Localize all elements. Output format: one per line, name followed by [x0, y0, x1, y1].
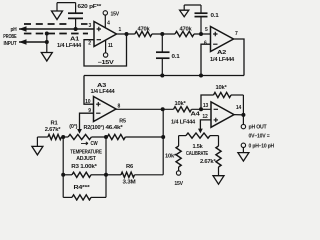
power +15V pin 4	[103, 11, 119, 28]
wire guard shield upper dashes	[24, 23, 88, 25]
svg-text:10k*: 10k*	[216, 85, 228, 91]
svg-text:11: 11	[108, 43, 113, 49]
wire junction up to A3 out	[162, 109, 164, 137]
svg-text:1.5k: 1.5k	[193, 144, 203, 150]
svg-text:3: 3	[89, 23, 92, 29]
wire A4 output	[234, 113, 245, 117]
label R2	[69, 118, 126, 130]
label A1	[57, 37, 81, 49]
wire pot left	[179, 136, 186, 146]
svg-text:470k: 470k	[180, 26, 192, 32]
svg-text:2: 2	[88, 41, 91, 47]
label R3	[71, 164, 98, 170]
svg-text:0.1: 0.1	[172, 54, 180, 60]
svg-text:14: 14	[236, 105, 242, 111]
wire bus A2 out to A3 in	[84, 74, 244, 78]
wire A2 output loop	[234, 39, 245, 76]
svg-text:6: 6	[204, 41, 207, 47]
ground calibrate	[213, 167, 224, 184]
label A4	[171, 111, 200, 125]
resistor 2.67k to gnd	[200, 146, 221, 167]
svg-text:4: 4	[107, 21, 110, 27]
wire R5 to junction	[125, 135, 165, 139]
svg-text:8: 8	[118, 103, 121, 109]
wire ground to cap	[57, 3, 76, 13]
ground output	[238, 148, 249, 162]
svg-text:A3: A3	[97, 83, 106, 89]
label pin5	[205, 27, 208, 33]
label pin10	[85, 99, 91, 105]
svg-text:15V: 15V	[174, 181, 183, 187]
svg-text:(0°): (0°)	[69, 124, 77, 130]
label R4	[74, 185, 92, 191]
svg-text:pH OUT: pH OUT	[249, 125, 268, 131]
svg-text:10k*: 10k*	[175, 101, 187, 107]
wire guard shield lower dashes	[23, 33, 88, 35]
wire right rail	[104, 137, 108, 197]
potentiometer 1.5k calibrate	[186, 133, 210, 157]
svg-text:R1: R1	[51, 120, 58, 126]
label pin13	[203, 103, 209, 109]
wire A4 feedback	[201, 95, 243, 115]
svg-text:R2(100°): R2(100°)	[84, 125, 105, 131]
resistor R5 46.4k	[107, 134, 125, 139]
resistor 10k A3 to A4	[174, 101, 192, 112]
svg-text:R6: R6	[126, 164, 133, 170]
svg-text:0.1: 0.1	[211, 13, 219, 19]
wire probe return with arrow	[19, 39, 47, 44]
wire ground to cap2	[184, 5, 201, 13]
label pin12	[202, 114, 208, 120]
svg-text:0 pH–10 pH: 0 pH–10 pH	[249, 144, 275, 150]
svg-text:A1: A1	[70, 37, 79, 43]
wire A3 pin9 to pot wiper	[77, 113, 93, 134]
svg-text:ADJUST: ADJUST	[76, 156, 97, 162]
svg-text:46.4k*: 46.4k*	[106, 125, 124, 131]
ground R1	[32, 137, 43, 155]
svg-text:PROBE: PROBE	[3, 34, 17, 40]
svg-text:7: 7	[235, 31, 238, 37]
ground guard cap	[52, 3, 63, 20]
svg-text:0V–10V =: 0V–10V =	[249, 133, 270, 139]
label A2	[210, 50, 234, 63]
wire A1 feedback loop	[84, 34, 127, 66]
svg-text:CW: CW	[91, 141, 98, 147]
svg-text:1/4 LF444: 1/4 LF444	[91, 89, 115, 95]
capacitor 0.1 mid	[156, 34, 180, 76]
ground input return	[41, 42, 52, 61]
label pin3	[89, 23, 92, 29]
label pin7	[235, 31, 238, 37]
label A3	[91, 83, 115, 95]
wire pH signal with arrow	[19, 26, 94, 31]
svg-text:2.67k*: 2.67k*	[200, 159, 217, 165]
svg-text:−15V: −15V	[98, 60, 115, 66]
resistor R1 2.67k	[45, 120, 62, 139]
svg-text:470k: 470k	[138, 26, 150, 32]
wire to pin5	[194, 32, 211, 36]
wire R6 to junction	[135, 137, 164, 175]
svg-text:pH: pH	[11, 27, 17, 33]
node left rail top	[61, 135, 68, 139]
terminal 15V bottom	[174, 167, 183, 187]
capacitor 620pF	[68, 13, 83, 31]
label pin6	[204, 41, 207, 47]
node pH input labels	[3, 27, 17, 47]
label 620pF	[78, 4, 103, 10]
label pH OUT	[249, 125, 275, 150]
terminal pH OUT	[241, 115, 245, 129]
resistor R6 3.3M	[106, 164, 136, 185]
svg-text:CALIBRATE: CALIBRATE	[186, 151, 209, 157]
resistor 470k second	[175, 26, 194, 36]
wire gnd to R1	[37, 136, 48, 138]
wire A1 output	[117, 27, 135, 36]
resistor 470k first	[135, 26, 152, 36]
wire left rail	[61, 137, 65, 197]
svg-text:A4: A4	[191, 111, 200, 117]
svg-text:1/4 LF444: 1/4 LF444	[210, 57, 234, 63]
op-amp A2	[211, 27, 234, 52]
power -15V pin 11	[98, 40, 115, 66]
wire pin12 to wiper	[198, 120, 211, 133]
svg-text:A2: A2	[217, 50, 226, 56]
svg-text:INPUT: INPUT	[4, 41, 18, 47]
wire A3 output	[116, 107, 174, 111]
svg-text:1: 1	[119, 27, 122, 33]
svg-text:620 pF**: 620 pF**	[78, 4, 103, 10]
svg-text:1/4 LF444: 1/4 LF444	[57, 43, 81, 49]
svg-text:1/4 LF444: 1/4 LF444	[171, 119, 195, 125]
label pin9	[88, 108, 91, 114]
svg-text:TEMPERATURE: TEMPERATURE	[70, 150, 102, 156]
wire to pin13	[192, 107, 212, 111]
resistor R4	[63, 195, 106, 200]
svg-text:R5: R5	[119, 118, 126, 124]
resistor R3 1.00k	[63, 172, 106, 177]
op-amp A1	[94, 22, 117, 47]
op-amp A4	[211, 102, 234, 127]
svg-text:R3 1.00k*: R3 1.00k*	[71, 164, 98, 170]
resistor 10k feedback	[214, 85, 232, 98]
terminal output return	[241, 143, 245, 147]
svg-text:13: 13	[203, 103, 209, 109]
ground top right	[180, 5, 189, 17]
svg-text:10: 10	[85, 99, 91, 105]
op-amp A3	[94, 97, 117, 122]
svg-text:15V: 15V	[111, 12, 120, 18]
label temperature adjust	[70, 141, 102, 162]
wire bus drop to A3 pin10	[84, 76, 94, 105]
node filter junction	[152, 32, 175, 36]
resistor 10k to 15V	[165, 146, 181, 167]
svg-text:R4***: R4***	[74, 185, 92, 191]
capacitor 0.1 top right	[195, 13, 219, 34]
label pin14	[236, 105, 242, 111]
svg-text:2.67k*: 2.67k*	[45, 127, 62, 133]
svg-text:3.3M: 3.3M	[123, 179, 137, 185]
wire guard to return junction	[45, 32, 49, 45]
potentiometer R2 46.4k	[68, 134, 91, 139]
label pin2	[88, 41, 91, 47]
svg-text:10k*: 10k*	[165, 154, 177, 160]
wire R2 to R5	[91, 135, 108, 139]
label pin8	[118, 103, 121, 109]
wire A2 pin6 to bus	[201, 44, 211, 75]
svg-text:5: 5	[205, 27, 208, 33]
wire pot right	[210, 136, 219, 146]
